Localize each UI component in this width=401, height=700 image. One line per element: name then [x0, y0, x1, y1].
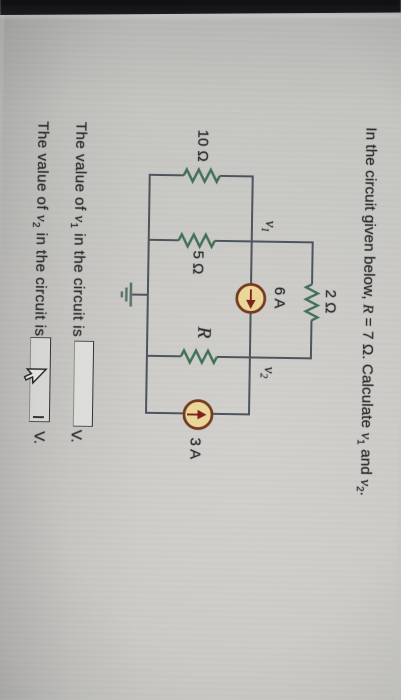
ground — [122, 282, 148, 306]
label R — [192, 327, 214, 339]
question line 2 — [28, 121, 51, 337]
question line 1 — [66, 122, 89, 338]
wire: top rail left of 6A source — [251, 176, 253, 283]
wire: bottom rail — [146, 175, 150, 414]
dark strip at top (photo edge) — [0, 0, 401, 16]
wire: v1 branch upper (to 2ohm line) — [215, 241, 313, 243]
resistor 5ohm zigzag — [179, 234, 215, 247]
resistor 10ohm zigzag — [184, 169, 220, 182]
wire: v2 branch lower stub — [146, 355, 181, 358]
label V. line 2 — [31, 431, 48, 444]
wire: v2 branch upper (to 2ohm line) — [217, 357, 311, 358]
input box 2 — [29, 337, 51, 422]
label 6A — [271, 287, 288, 309]
label 2ohm — [322, 290, 339, 314]
wire: v1 branch lower stub — [148, 239, 179, 241]
wire: left branch lower stub — [149, 174, 184, 177]
mouse cursor — [21, 366, 47, 392]
label V. line 1 — [68, 430, 85, 443]
wire: left branch upper stub — [220, 175, 254, 178]
label 5ohm — [189, 250, 206, 274]
screen edge highlight under strip — [0, 14, 401, 21]
node v2 — [258, 367, 277, 379]
wire: 2ohm line left segment — [311, 241, 314, 284]
wire: top rail right of 6A source — [249, 313, 251, 415]
wire: 3A branch lower stub — [145, 412, 183, 415]
input box 1 — [73, 341, 94, 427]
label 10ohm — [194, 130, 212, 162]
current source 6A — [237, 284, 265, 312]
resistor 2ohm zigzag — [305, 284, 318, 320]
resistor R zigzag — [181, 350, 217, 363]
caret in box 2 — [33, 416, 44, 418]
current source 3A — [184, 400, 212, 428]
label 3A — [186, 437, 203, 459]
title — [354, 127, 380, 496]
node v1 — [259, 221, 278, 233]
wire: 3A branch upper stub — [212, 413, 250, 416]
wire: 2ohm line right segment — [310, 320, 313, 359]
